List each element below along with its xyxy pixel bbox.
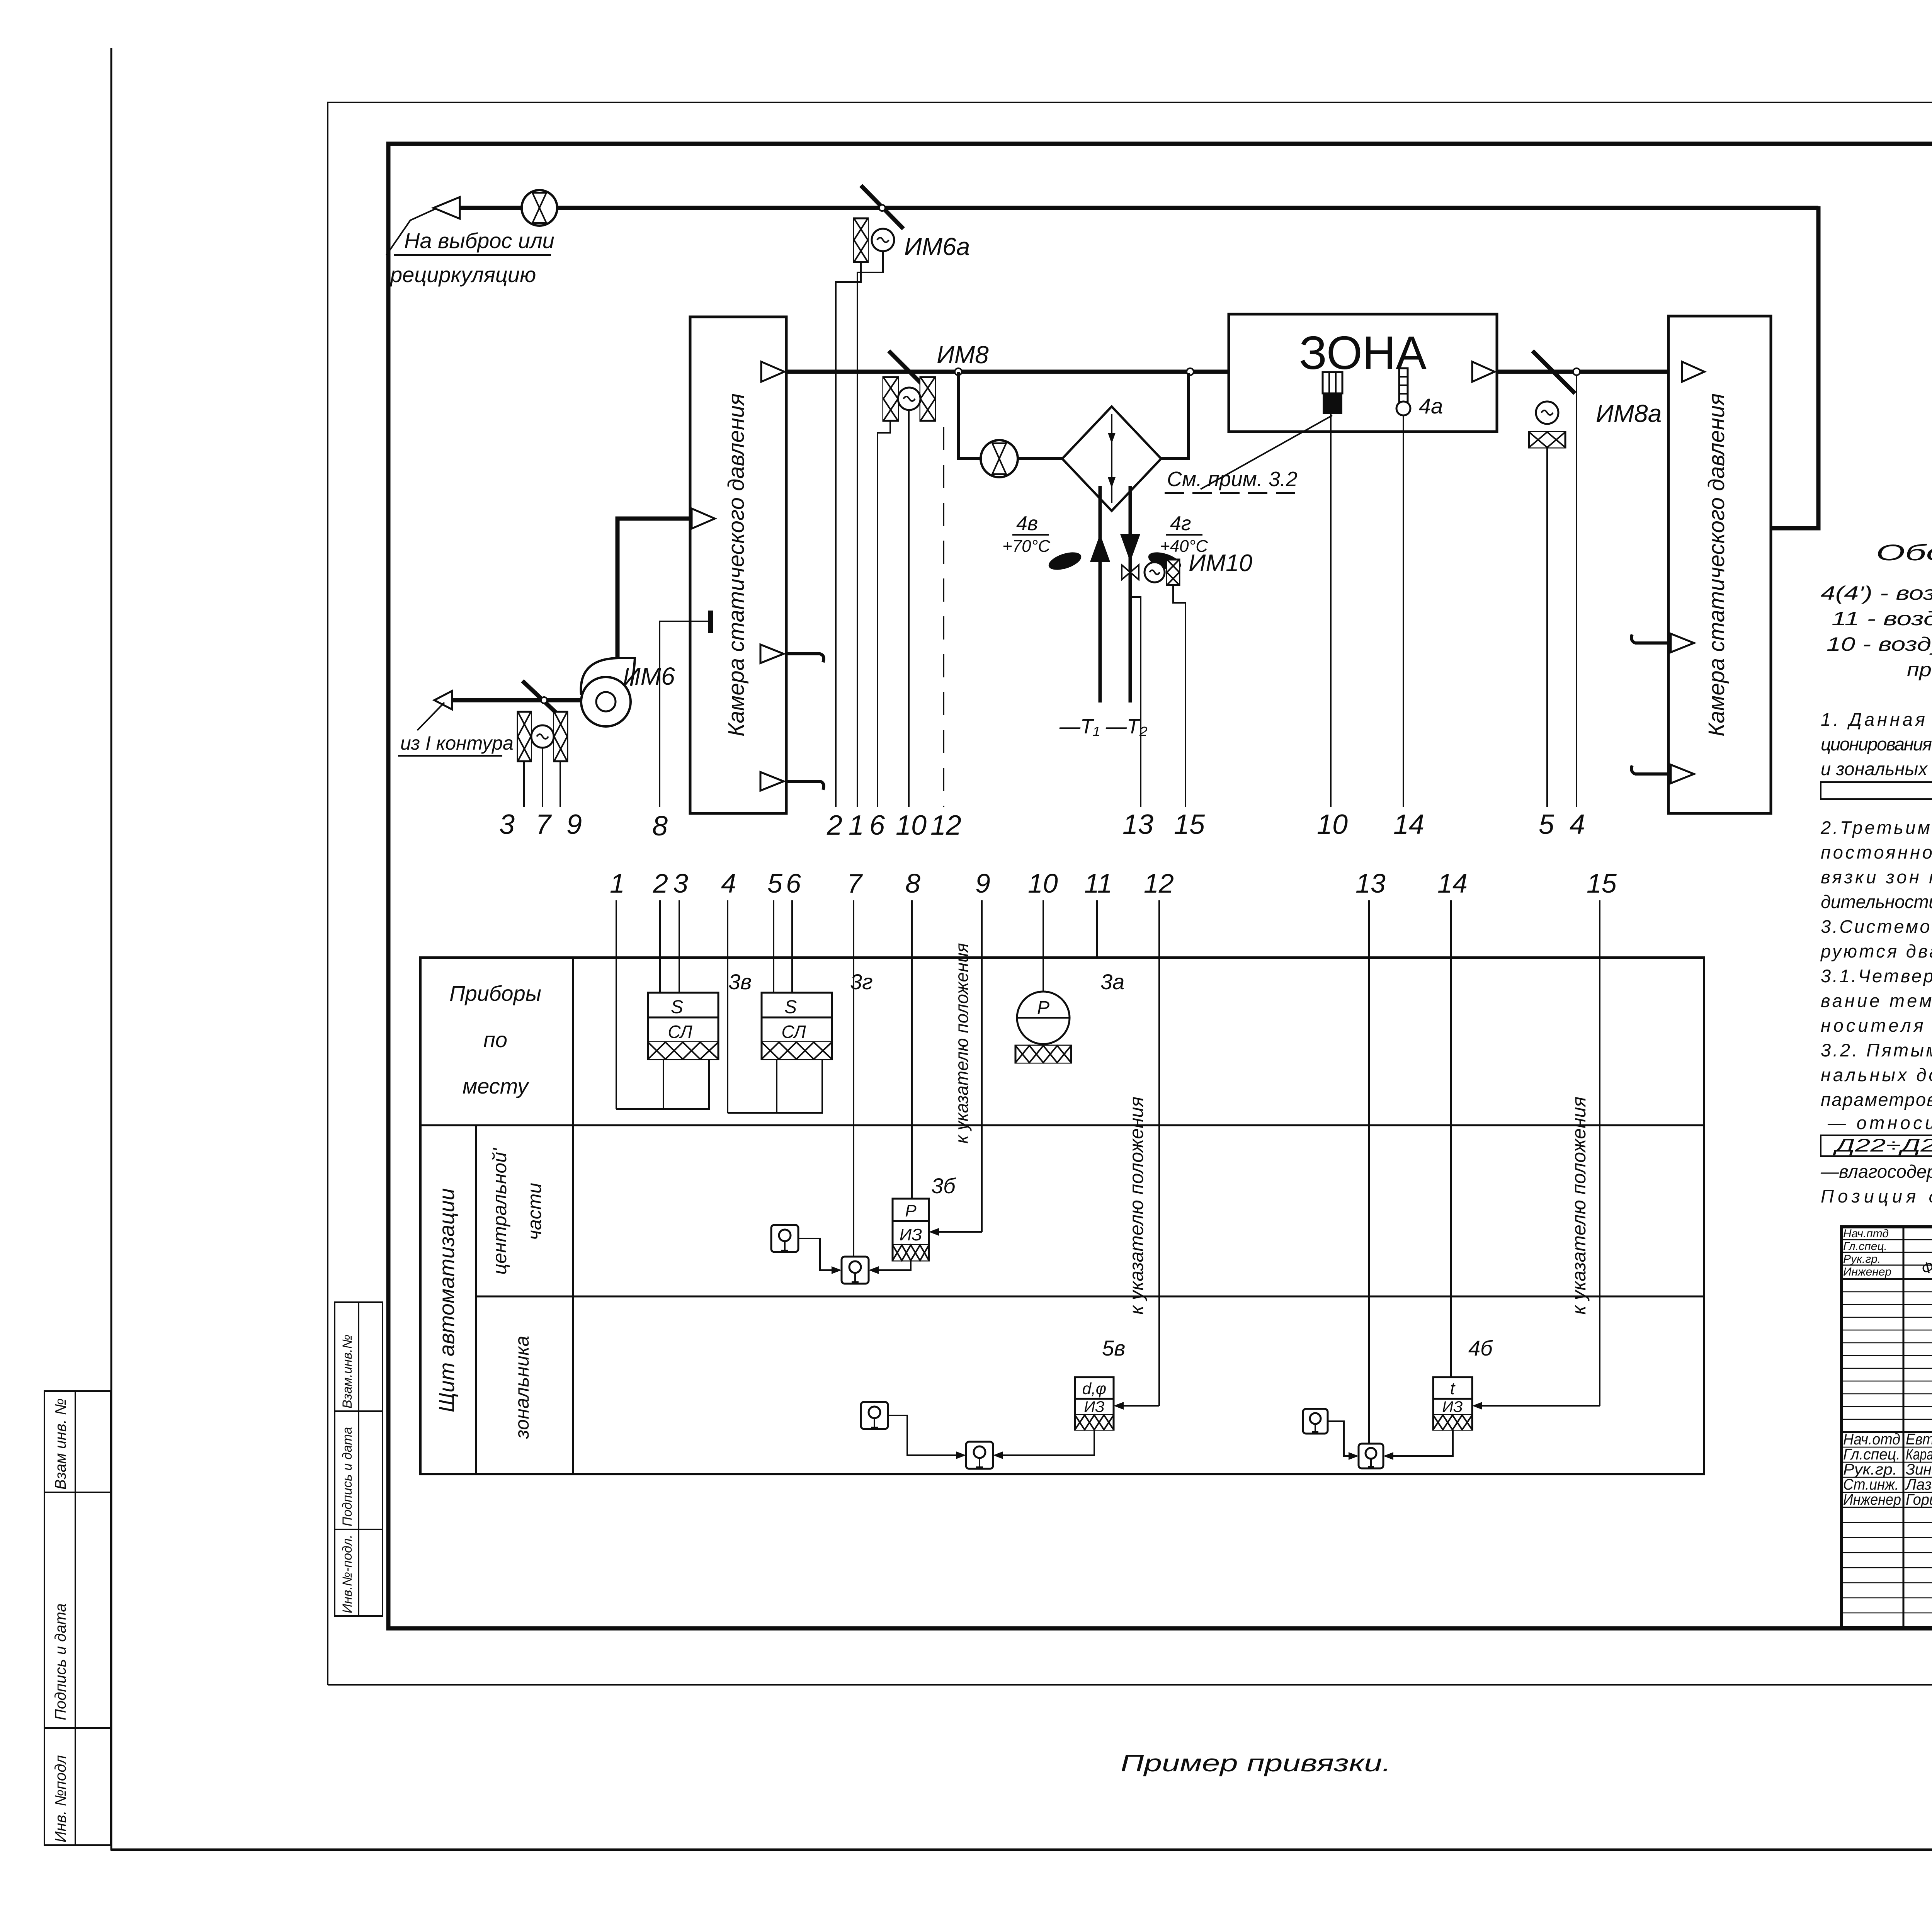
leader line inlet (417, 703, 444, 730)
device 3г (S/СЛ) (762, 993, 832, 1059)
svg-text:Камера статического давления: Камера статического давления (724, 393, 749, 737)
svg-text:СЛ: СЛ (668, 1022, 692, 1042)
svg-text:носителя через воздухонагреват: носителя через воздухонагреватель. (1821, 1015, 1932, 1036)
flow meter on bypass (981, 440, 1018, 477)
svg-text:зональника: зональника (511, 1336, 533, 1439)
flow arrow fan duct into chamber (692, 509, 715, 529)
damper UM8 (889, 351, 931, 393)
svg-text:СЛ: СЛ (781, 1022, 806, 1042)
wire col5 (773, 900, 774, 993)
svg-text:12: 12 (1144, 868, 1174, 898)
column numbers row (610, 868, 1617, 898)
wire 4 from node (1576, 375, 1577, 807)
fan outlet duct wire (617, 519, 691, 659)
svg-text:10 - воздух в зоне в помещении: 10 - воздух в зоне в помещении - зона ус… (1827, 633, 1932, 655)
svg-text:4: 4 (721, 868, 736, 898)
svg-text:10: 10 (1317, 809, 1348, 840)
wire 13 (1130, 580, 1141, 807)
svg-text:Р: Р (905, 1201, 917, 1220)
inner thick frame (388, 144, 1932, 1628)
svg-text:Приборы: Приборы (449, 981, 541, 1005)
svg-text:5: 5 (1539, 809, 1554, 840)
svg-text:6: 6 (786, 868, 801, 898)
svg-text:Гл.спец.: Гл.спец. (1843, 1446, 1900, 1463)
svg-text:5: 5 (767, 868, 783, 898)
fan P1 (581, 658, 635, 726)
svg-text:ИМ6а: ИМ6а (904, 233, 970, 260)
svg-text:ИЗ: ИЗ (1442, 1398, 1463, 1415)
damper UM6a (861, 185, 903, 229)
right static pressure chamber box (1668, 316, 1771, 813)
sheet edge bottom (111, 1849, 1932, 1851)
svg-text:руются два параметра воздуха: руются два параметра воздуха (1820, 941, 1932, 961)
air heater diamond (1062, 407, 1161, 511)
svg-text:ИЗ: ИЗ (1084, 1398, 1104, 1415)
relay block row3 right pair b (1359, 1444, 1383, 1468)
svg-text:ИМ8а: ИМ8а (1596, 400, 1662, 427)
wires around left relay pair row3 (888, 1415, 961, 1455)
svg-text:Камера статического давления: Камера статического давления (1704, 393, 1729, 737)
svg-text:Обозначения на J-d диаграмме: Обозначения на J-d диаграмме (1876, 540, 1932, 565)
svg-text:к указателю положения: к указателю положения (952, 943, 972, 1143)
svg-text:Рук.гр.: Рук.гр. (1843, 1461, 1897, 1478)
svg-text:10: 10 (896, 810, 927, 841)
svg-text:3: 3 (673, 868, 688, 898)
svg-text:Д22÷Д28: Д22÷Д28 (1832, 1135, 1932, 1155)
svg-text:Р: Р (1037, 998, 1049, 1018)
flow arrow into right chamber top (1750, 519, 1767, 538)
svg-text:4а: 4а (1419, 394, 1443, 418)
value boxes in notes (1821, 733, 1932, 1206)
damper UM8a (1532, 351, 1575, 393)
wire from UM6a damper box to line 2 (836, 262, 861, 807)
svg-text:4г: 4г (1170, 512, 1191, 535)
wire col15 (1599, 900, 1600, 1406)
zone box (1229, 314, 1497, 432)
svg-text:принята с тепло и влаговыделен: принята с тепло и влаговыделениями. (1907, 659, 1932, 680)
device 4б regulator (1433, 1377, 1472, 1430)
wire 14 from thermometer (1403, 415, 1404, 807)
chamber outlet stub upper (760, 645, 784, 663)
svg-text:Взам.инв.№: Взам.инв.№ (340, 1335, 355, 1408)
svg-text:ИЗ: ИЗ (900, 1225, 922, 1244)
svg-text:См. прим. 3.2: См. прим. 3.2 (1167, 468, 1298, 491)
wire col7 (853, 900, 854, 1257)
damper UM6 (522, 681, 565, 721)
bypass wire to heater (1018, 457, 1063, 460)
svg-text:4б: 4б (1468, 1336, 1493, 1360)
svg-text:— относительной влажности, дов: — относительной влажности, доводчики (1827, 1112, 1932, 1133)
svg-text:Подпись и дата: Подпись и дата (340, 1427, 355, 1526)
svg-text:14: 14 (1393, 809, 1424, 840)
node on supply duct (955, 368, 962, 375)
flow arrow into right chamber (1682, 362, 1704, 382)
svg-text:8: 8 (652, 811, 668, 842)
svg-text:и зональных доводчиков: и зональных доводчиков (1821, 759, 1932, 779)
wire col2 (659, 900, 661, 993)
svg-text:11 - воздух после обработки в: 11 - воздух после обработки в зональном … (1832, 608, 1932, 629)
svg-text:Ст.инж.: Ст.инж. (1843, 1476, 1899, 1493)
wire 12 dashed from UM8 (943, 427, 944, 807)
device 3б regulator (893, 1199, 929, 1260)
sensor tag labels row (499, 809, 1585, 842)
upper signature labels (1843, 1227, 1891, 1278)
svg-text:Карапшевский: Карапшевский (1906, 1446, 1932, 1463)
svg-text:из I контура: из I контура (400, 732, 514, 754)
inlet flow arrow (434, 691, 452, 709)
svg-text:На выброс или: На выброс или (404, 228, 554, 253)
wire col15 arrow into 4б (1478, 1405, 1600, 1407)
actuator UM6a (854, 218, 894, 262)
device 3а pressure gauge (1015, 992, 1071, 1063)
actuator UM8 (883, 377, 935, 421)
svg-text:центральной': центральной' (489, 1148, 510, 1275)
actuator UM8a (1529, 401, 1565, 447)
wire col12 (1158, 900, 1160, 1406)
svg-text:3.1.Четвертым контуром регулир: 3.1.Четвертым контуром регулирования пре… (1821, 966, 1932, 986)
svg-text:—Т₁: —Т₁ (1059, 715, 1100, 738)
supply duct wire chamber to zone (786, 370, 1235, 374)
svg-text:Взам инв. №: Взам инв. № (52, 1398, 69, 1490)
svg-text:рециркуляцию: рециркуляцию (389, 262, 536, 287)
svg-text:по: по (483, 1027, 507, 1052)
leader См.прим. (1201, 415, 1332, 489)
flow arrow chamber to supply duct (761, 362, 784, 382)
svg-text:Горшенина: Горшенина (1906, 1491, 1932, 1508)
svg-text:3: 3 (499, 809, 515, 840)
svg-text:3г: 3г (850, 970, 873, 994)
svg-text:3а: 3а (1100, 970, 1124, 994)
svg-text:Евтушенко: Евтушенко (1906, 1431, 1932, 1448)
left static pressure chamber box (690, 317, 786, 813)
device 5в regulator (1075, 1377, 1114, 1430)
svg-text:1: 1 (610, 868, 625, 898)
box Д22÷Д28 (1821, 1135, 1932, 1156)
wire col8 (911, 900, 913, 1199)
wire under 3в (616, 1059, 663, 1109)
svg-text:Инженер: Инженер (1843, 1266, 1891, 1278)
node on supply duct right (1187, 368, 1194, 375)
svg-text:4: 4 (1570, 809, 1585, 840)
svg-text:t: t (1450, 1379, 1456, 1398)
svg-text:12: 12 (930, 810, 961, 841)
svg-text:постоянного статического давле: постоянного статического давления в колл… (1821, 842, 1932, 862)
heating return pipe T2 (1129, 486, 1132, 703)
exhaust duct arrow (на выброс) (434, 197, 460, 219)
svg-text:10: 10 (1028, 868, 1058, 898)
svg-text:4в: 4в (1016, 512, 1038, 535)
device 3в (S/СЛ) (648, 993, 718, 1059)
svg-text:11: 11 (1084, 868, 1112, 898)
svg-text:Подпись и дата: Подпись и дата (52, 1603, 69, 1720)
wire col9 (981, 900, 983, 1232)
chamber outlet stub lower (760, 772, 784, 791)
svg-text:3.2. Пятым контуром регулирова: 3.2. Пятым контуром регулирования для ни… (1821, 1040, 1932, 1060)
svg-text:месту: месту (463, 1074, 529, 1098)
wire 6 from UM8 (878, 421, 890, 807)
right chamber stub upper (1631, 634, 1668, 643)
svg-text:Нач.отд: Нач.отд (1843, 1431, 1900, 1448)
wire from UM6a to line 1 (857, 251, 883, 807)
node after UM8a (1573, 368, 1580, 375)
svg-text:1: 1 (849, 810, 864, 841)
sheet edge left (111, 48, 112, 1850)
wire 7 from UM6 (542, 748, 543, 807)
svg-text:7: 7 (847, 868, 863, 898)
flow arrow out of zone (1472, 362, 1495, 382)
box empty (1821, 782, 1932, 799)
instrument table frame (420, 958, 1704, 1474)
wire relay to relay row2 (798, 1238, 837, 1270)
leader line to exhaust arrow (386, 209, 436, 255)
relay block row3 right pair a (1303, 1409, 1328, 1434)
svg-text:Зингерман: Зингерман (1906, 1461, 1932, 1478)
wire col4 (727, 900, 728, 1113)
wire col10 (1043, 900, 1044, 992)
thermometer 4а in zone (1396, 368, 1410, 415)
wire 10 from UM8 (908, 410, 910, 807)
svg-text:9: 9 (975, 868, 990, 898)
wire col11 (1096, 900, 1098, 958)
svg-text:15: 15 (1174, 809, 1205, 840)
wire col12 arrow into 5в (1119, 1405, 1159, 1407)
svg-text:Гл.спец.: Гл.спец. (1843, 1240, 1887, 1253)
wire col14 (1450, 900, 1452, 1377)
right chamber stub lower (1631, 765, 1668, 774)
svg-text:2: 2 (827, 810, 842, 841)
svg-text:Рук.гр.: Рук.гр. (1843, 1253, 1881, 1266)
header Приборы по месту (449, 981, 541, 1098)
svg-text:8: 8 (905, 868, 920, 898)
svg-text:d,φ: d,φ (1082, 1379, 1106, 1398)
wire col9 arrow into 3б (934, 1231, 982, 1233)
flow arrow into zone (1238, 362, 1260, 382)
wire 9 from UM6 (560, 761, 561, 807)
left stamp column block (44, 1391, 111, 1845)
outer frame (328, 102, 1932, 1685)
svg-text:к указателю положения: к указателю положения (1568, 1097, 1590, 1315)
svg-text:3в: 3в (728, 970, 752, 994)
svg-text:вание температуры воздуха в зо: вание температуры воздуха в зоне изменен… (1821, 990, 1932, 1011)
svg-text:к указателю положения: к указателю положения (1126, 1097, 1147, 1315)
wire col1 (616, 900, 617, 1109)
svg-text:7: 7 (536, 809, 552, 840)
bypass wire down (958, 372, 981, 459)
svg-text:ционирования: ционирования (1821, 734, 1932, 754)
svg-text:ИМ8: ИМ8 (937, 341, 989, 369)
title block frame (1842, 1227, 1932, 1628)
svg-text:S: S (784, 997, 797, 1017)
svg-text:5в: 5в (1102, 1336, 1125, 1360)
svg-text:14: 14 (1437, 868, 1468, 898)
pressure probe 8 (708, 611, 713, 633)
relay block row2 left (771, 1225, 798, 1252)
heater outlet wire to node (1161, 373, 1189, 459)
svg-text:Пример привязки.: Пример привязки. (1121, 1750, 1391, 1777)
wire 3 from UM6 (523, 761, 525, 807)
svg-text:6: 6 (869, 810, 885, 841)
wire 15 (1173, 585, 1185, 807)
wires around right relay pair row3 (1328, 1421, 1353, 1456)
valve on T2 (1122, 565, 1139, 580)
svg-text:Инв. №подл: Инв. №подл (52, 1755, 69, 1842)
svg-text:9: 9 (566, 809, 582, 840)
svg-text:4(4') - воздух после обработки: 4(4') - воздух после обработки в 1 конту… (1821, 582, 1932, 604)
relay block row3 left-center (966, 1442, 993, 1469)
wire col13 (1368, 900, 1370, 1444)
flow meter FE on exhaust duct (522, 190, 557, 226)
svg-text:Инв.№-подл.: Инв.№-подл. (340, 1535, 355, 1613)
svg-text:13: 13 (1122, 809, 1153, 840)
actuator UM6 (518, 712, 567, 761)
svg-text:части: части (524, 1183, 545, 1240)
svg-text:Лазаренко: Лазаренко (1905, 1476, 1932, 1493)
svg-text:13: 13 (1355, 868, 1386, 898)
svg-text:+70°C: +70°C (1002, 537, 1051, 556)
supply duct zone to right chamber (1497, 370, 1673, 374)
exhaust duct drop to right chamber (1767, 206, 1818, 528)
wire under 3г (728, 1059, 777, 1113)
heating supply pipe T1 (1099, 486, 1102, 703)
wire 3б to relay row2 (874, 1260, 911, 1270)
svg-text:ИМ6: ИМ6 (623, 662, 675, 690)
lower signature names (1843, 1431, 1932, 1508)
svg-text:3б: 3б (931, 1174, 956, 1198)
relay block row3 far left (861, 1402, 888, 1429)
inlet duct wire (из I контура) (451, 698, 582, 703)
wire 10 from zone sensor (1330, 414, 1332, 807)
wire 5 from UM8a (1546, 447, 1548, 807)
svg-text:2: 2 (653, 868, 668, 898)
svg-text:Инженер: Инженер (1843, 1491, 1901, 1508)
exhaust duct wire (460, 206, 1818, 210)
second stamp block near frame (335, 1302, 383, 1616)
svg-text:S: S (671, 997, 683, 1017)
svg-text:ИМ10: ИМ10 (1189, 550, 1252, 577)
svg-text:дительности установки кондицио: дительности установки кондиционирования … (1821, 891, 1932, 912)
column stub wires (616, 900, 1600, 1444)
svg-text:Нач.птд: Нач.птд (1843, 1227, 1889, 1240)
actuator UM10 (1145, 560, 1179, 585)
svg-text:Щит автоматизации: Щит автоматизации (434, 1188, 459, 1412)
humidity sensor in zone (1323, 372, 1342, 414)
svg-text:—влагосодержания, доводчики: —влагосодержания, доводчики (1820, 1161, 1932, 1182)
wire col3 (679, 900, 680, 993)
svg-text:15: 15 (1587, 868, 1617, 898)
wire col6 (791, 900, 793, 993)
relay block row2 center (842, 1257, 869, 1284)
